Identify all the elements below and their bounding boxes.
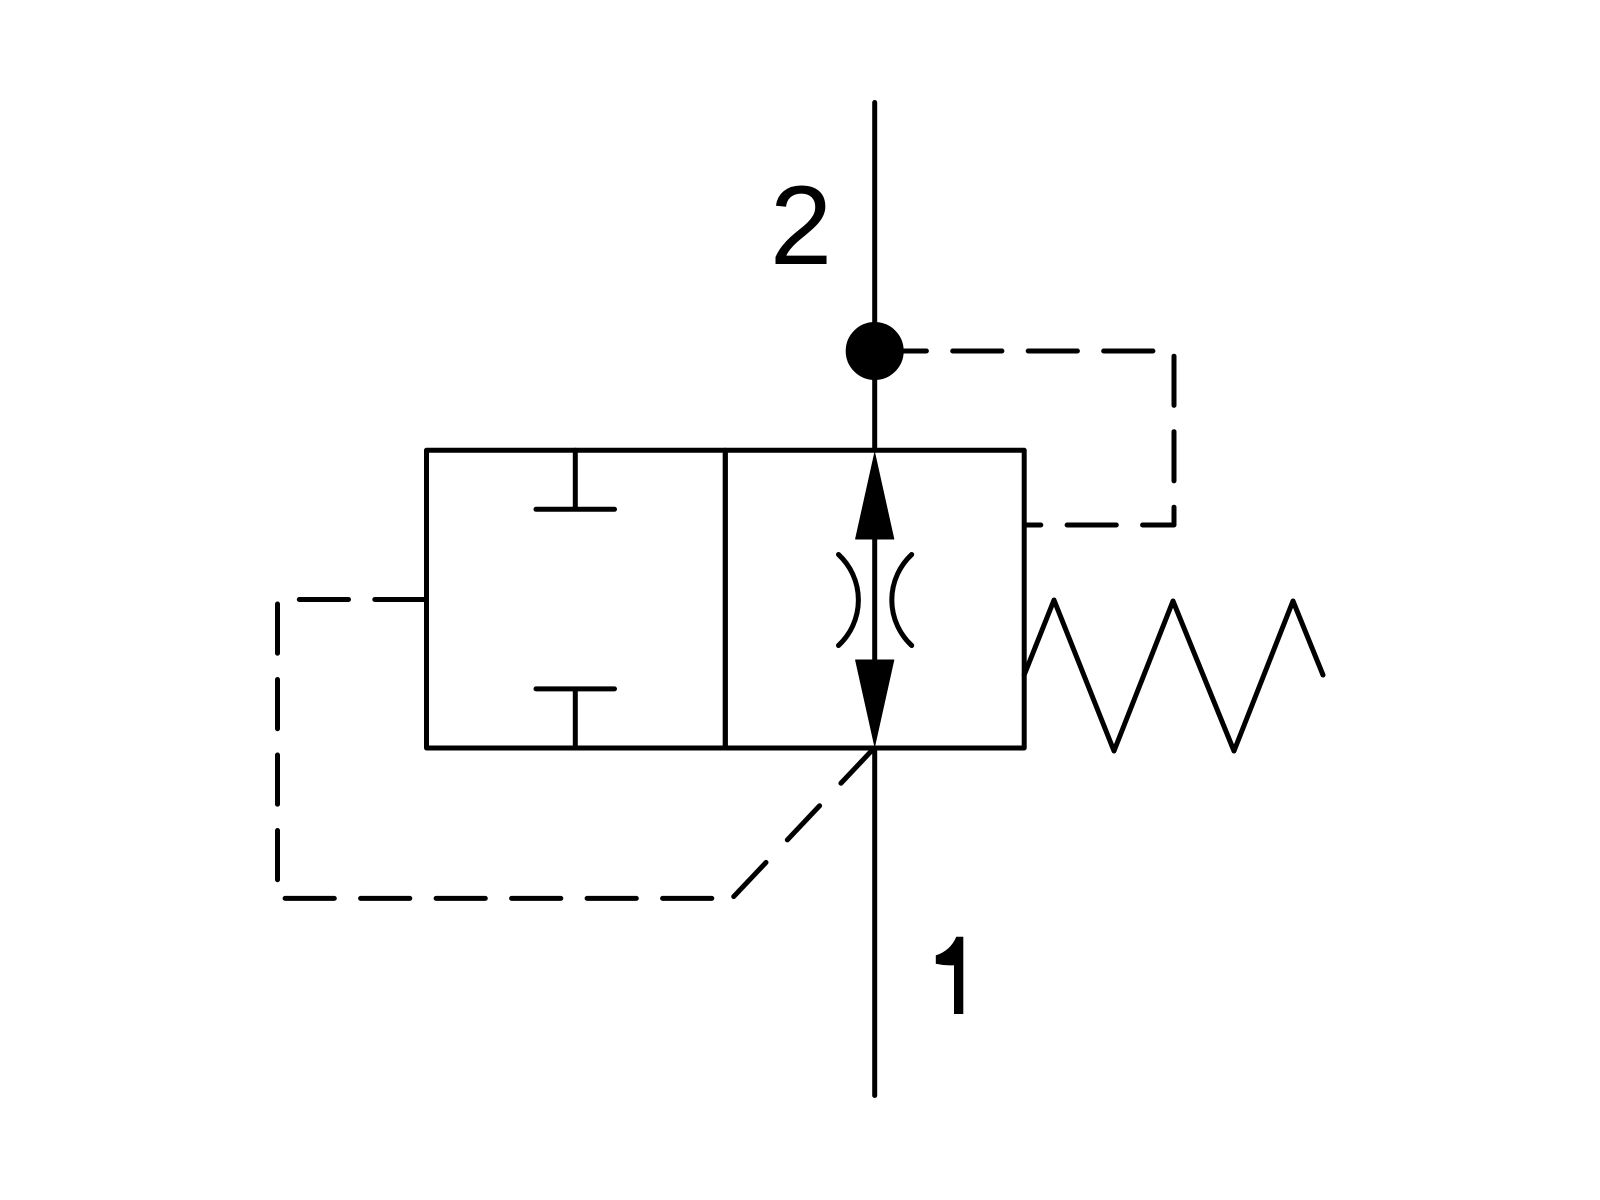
port 1 label — [936, 937, 964, 1014]
pilot line left (dashed: envelope left side to port 1) — [278, 600, 733, 899]
restriction arc left — [839, 555, 859, 646]
pilot line diagonal (dashed, to valve seat vertex) — [732, 748, 875, 899]
flow arrow up — [856, 453, 894, 539]
port line 1 (bottom vertical line) — [872, 748, 877, 1096]
svg-text:2: 2 — [770, 163, 832, 288]
flow path shaft — [872, 530, 877, 665]
valve envelope left chamber — [427, 450, 726, 748]
port line 2 (top vertical line) — [872, 103, 877, 451]
spring — [1024, 600, 1323, 751]
closed port symbol lower T — [536, 689, 615, 748]
closed port symbol upper T — [536, 450, 615, 509]
restriction arc right — [892, 555, 912, 646]
junction node (filled circle on port line 2) — [848, 325, 901, 378]
pilot line right (dashed: node to spring side of envelope) — [875, 351, 1174, 525]
flow arrow down — [856, 660, 894, 746]
valve envelope right chamber — [725, 450, 1024, 748]
